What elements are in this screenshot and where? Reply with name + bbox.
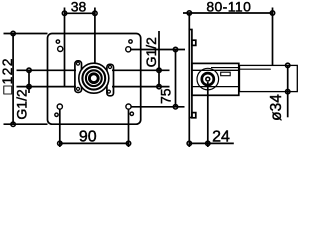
dimension diameter-34 bottom dot bbox=[286, 89, 290, 93]
dimension 90 right extension line bbox=[128, 109, 130, 147]
supply line top (G1/2) bbox=[17, 69, 77, 71]
valve flange screw hole bottom-left bbox=[77, 87, 80, 90]
dimension diameter-34 top dot bbox=[286, 63, 290, 67]
dimension 80-110 right extension line bbox=[272, 8, 274, 66]
supply line top crossing side body bbox=[192, 69, 239, 71]
plate port hole bottom-left bbox=[57, 104, 62, 109]
svg-text:ø34: ø34 bbox=[268, 94, 285, 121]
G1/2 right top dot bbox=[157, 68, 161, 72]
side plate screw boss top bbox=[192, 40, 196, 45]
G1/2 left top dot bbox=[27, 68, 31, 72]
plate port hole bottom-right bbox=[126, 104, 131, 109]
svg-text:G1/2: G1/2 bbox=[143, 37, 159, 68]
dimension 24 left extension line bbox=[188, 118, 190, 147]
dimension 24 dim line bbox=[189, 142, 234, 144]
G1/2 left leader line bbox=[28, 70, 30, 93]
dimension 80-110 right dot bbox=[270, 11, 274, 15]
svg-text:38: 38 bbox=[71, 0, 87, 15]
plate small hole top-left bbox=[56, 40, 59, 43]
side plate screw boss bottom bbox=[192, 113, 196, 118]
side plate leader from 80-110 bbox=[188, 13, 190, 30]
svg-text:90: 90 bbox=[79, 128, 97, 145]
dimension 75 bottom extension line bbox=[131, 106, 185, 108]
side body detail rect bbox=[221, 72, 231, 76]
side valve ring bbox=[202, 73, 214, 85]
dimension square-122 bottom dot bbox=[11, 122, 15, 126]
G1/2 left bottom dot bbox=[27, 84, 31, 88]
dimension diameter-34 dim line bbox=[287, 65, 289, 117]
dimension 90 dim line bbox=[60, 142, 129, 144]
dimension 90 left extension line bbox=[59, 109, 61, 147]
svg-text:75: 75 bbox=[157, 88, 173, 104]
dimension 75 top extension line bbox=[130, 49, 185, 51]
G1/2 right bottom dot bbox=[157, 84, 161, 88]
side wall plate slab bbox=[189, 30, 192, 118]
supply line bottom (G1/2) bbox=[17, 86, 77, 88]
dimension 24 left dot bbox=[187, 141, 191, 145]
dimension 75 dim line bbox=[175, 50, 177, 107]
side collar circle bbox=[197, 68, 219, 90]
side body step line bbox=[211, 67, 239, 69]
plate port hole top-left bbox=[58, 46, 63, 51]
plate port hole top-right bbox=[126, 47, 131, 52]
dimension 24 right dot bbox=[206, 141, 210, 145]
valve circle ring 2 bbox=[82, 67, 105, 90]
valve flange screw hole bottom-right bbox=[107, 90, 110, 93]
dimension square-122 top extension line bbox=[4, 33, 48, 35]
valve flange left tab bbox=[75, 61, 82, 93]
dimension 80-110 left dot bbox=[187, 11, 191, 15]
G1/2 right leader line bbox=[158, 31, 160, 87]
dimension square-122 bottom extension line bbox=[4, 123, 48, 125]
svg-text:24: 24 bbox=[212, 128, 230, 145]
dimension 80-110 dim line bbox=[183, 12, 273, 14]
dimension 38 dim line bbox=[65, 12, 95, 14]
svg-text:80-110: 80-110 bbox=[206, 0, 251, 15]
front plate bbox=[48, 34, 141, 125]
plate small hole bottom-left bbox=[55, 113, 58, 116]
supply line bottom crossing side body bbox=[192, 86, 239, 88]
plate small hole bottom-right bbox=[130, 112, 133, 115]
dimension 75 bottom dot bbox=[173, 105, 177, 109]
valve flange screw hole top-left bbox=[77, 62, 80, 65]
dimension square-122 top dot bbox=[11, 31, 15, 35]
svg-text:G1/2: G1/2 bbox=[14, 89, 30, 120]
dimension 90 right dot bbox=[126, 141, 130, 145]
dimension 90 left dot bbox=[58, 141, 62, 145]
valve inner heavy ring bbox=[89, 74, 98, 83]
side valve center donut bbox=[206, 77, 210, 81]
side tube (spindle housing) bbox=[240, 65, 298, 91]
valve flange screw hole top-right bbox=[109, 66, 112, 69]
dimension 75 top dot bbox=[173, 47, 177, 51]
dimension 38 right extension line bbox=[94, 8, 96, 64]
valve circle ring 3 bbox=[86, 70, 102, 86]
dimension 38 left extension line bbox=[64, 8, 66, 87]
side valve body bbox=[192, 63, 239, 95]
valve flange right tab bbox=[107, 64, 114, 96]
svg-text:□122: □122 bbox=[0, 57, 15, 94]
plate small hole top-right bbox=[129, 40, 132, 43]
dimension 38 right dot bbox=[93, 11, 97, 15]
valve outer circle bbox=[79, 63, 109, 93]
dimension 38 left dot bbox=[62, 11, 66, 15]
dimension 24 right extension line (valve centerline) bbox=[207, 82, 209, 147]
side tube inner line bbox=[240, 68, 271, 70]
dimension square-122 dim line bbox=[12, 34, 14, 125]
